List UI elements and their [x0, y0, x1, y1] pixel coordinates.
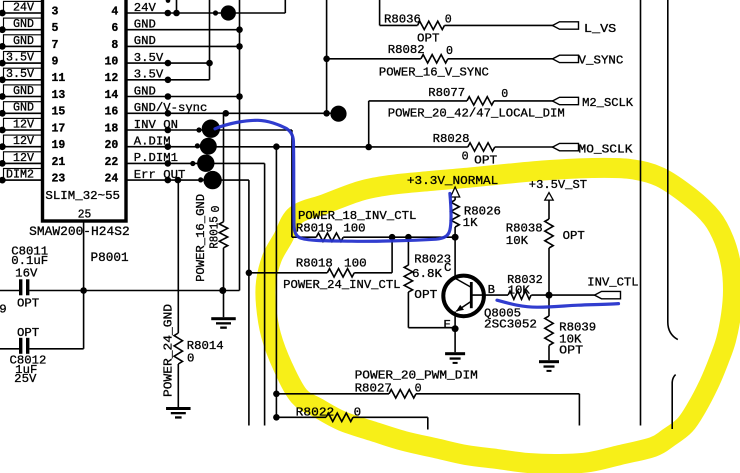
svg-text:12V: 12V	[13, 117, 34, 131]
svg-text:P8001: P8001	[91, 251, 129, 265]
svg-text:5: 5	[52, 22, 59, 35]
svg-text:19: 19	[52, 139, 66, 152]
svg-text:25: 25	[78, 209, 92, 222]
svg-text:R8019: R8019	[296, 222, 333, 236]
svg-text:2SC3052: 2SC3052	[484, 318, 537, 332]
svg-text:POWER_20_42/47_LOCAL_DIM: POWER_20_42/47_LOCAL_DIM	[388, 106, 565, 120]
svg-text:POWER_24_GND: POWER_24_GND	[162, 304, 176, 397]
svg-text:7: 7	[52, 39, 59, 52]
svg-text:24: 24	[105, 173, 119, 186]
svg-text:POWER_24_INV_CTL: POWER_24_INV_CTL	[283, 278, 400, 292]
svg-text:R8028: R8028	[433, 132, 470, 146]
svg-text:0: 0	[462, 150, 469, 164]
svg-text:17: 17	[52, 122, 66, 135]
svg-text:+3.5V_ST: +3.5V_ST	[529, 178, 587, 192]
svg-text:6.8K: 6.8K	[412, 267, 443, 281]
svg-text:OPT: OPT	[563, 229, 585, 243]
svg-text:10K: 10K	[508, 283, 531, 297]
svg-text:24V: 24V	[13, 0, 34, 14]
svg-text:25V: 25V	[14, 372, 37, 386]
svg-text:OPT: OPT	[474, 153, 497, 167]
svg-text:3.5V: 3.5V	[6, 51, 34, 65]
svg-text:3: 3	[52, 5, 59, 18]
svg-text:+3.3V_NORMAL: +3.3V_NORMAL	[407, 174, 498, 188]
svg-text:0: 0	[187, 352, 194, 366]
svg-text:18: 18	[105, 122, 119, 135]
svg-text:GND: GND	[13, 101, 34, 115]
svg-text:E: E	[444, 318, 451, 332]
svg-text:SMAW200-H24S2: SMAW200-H24S2	[29, 224, 130, 239]
svg-text:R8082: R8082	[388, 43, 425, 57]
svg-text:MO_SCLK: MO_SCLK	[579, 142, 634, 156]
svg-text:12V: 12V	[13, 151, 34, 165]
svg-text:20: 20	[105, 139, 119, 152]
svg-text:3.5V: 3.5V	[6, 67, 34, 81]
svg-text:12V: 12V	[13, 134, 34, 148]
svg-text:10: 10	[105, 56, 119, 69]
svg-text:14: 14	[105, 89, 119, 102]
svg-text:POWER_16_V_SYNC: POWER_16_V_SYNC	[379, 66, 489, 80]
svg-text:R8018: R8018	[296, 257, 333, 271]
svg-text:1K: 1K	[463, 216, 478, 230]
svg-text:23: 23	[52, 173, 66, 186]
svg-text:GND: GND	[13, 34, 34, 48]
svg-text:21: 21	[52, 156, 66, 169]
svg-text:22: 22	[105, 156, 119, 169]
svg-text:R8015: R8015	[208, 216, 222, 249]
svg-text:GND: GND	[13, 17, 34, 31]
svg-text:GND: GND	[13, 84, 34, 98]
svg-text:100: 100	[343, 222, 365, 236]
svg-text:POWER_16_GND: POWER_16_GND	[194, 194, 208, 282]
svg-text:16: 16	[105, 106, 119, 119]
svg-text:9: 9	[0, 303, 7, 317]
svg-text:SLIM_32~55: SLIM_32~55	[45, 189, 120, 203]
svg-text:L_VS: L_VS	[584, 22, 616, 36]
svg-text:OPT: OPT	[17, 297, 39, 311]
svg-text:0: 0	[446, 44, 453, 58]
svg-text:0: 0	[209, 206, 223, 213]
svg-text:100: 100	[344, 257, 367, 271]
svg-text:13: 13	[52, 89, 66, 102]
svg-text:12: 12	[105, 72, 119, 85]
svg-text:6: 6	[111, 22, 118, 35]
svg-text:10K: 10K	[506, 234, 529, 248]
svg-text:4: 4	[111, 5, 118, 18]
svg-text:8: 8	[111, 39, 118, 52]
svg-text:0: 0	[445, 13, 452, 27]
svg-text:C: C	[444, 261, 451, 275]
svg-text:M2_SCLK: M2_SCLK	[582, 96, 634, 110]
svg-text:OPT: OPT	[559, 344, 583, 358]
svg-text:R8077: R8077	[428, 86, 465, 100]
svg-text:16V: 16V	[15, 266, 38, 280]
svg-text:INV_CTL: INV_CTL	[587, 276, 638, 290]
svg-text:11: 11	[52, 72, 66, 85]
svg-text:POWER_20_PWM_DIM: POWER_20_PWM_DIM	[355, 369, 478, 383]
svg-text:OPT: OPT	[414, 288, 437, 302]
svg-text:DIM2: DIM2	[6, 168, 34, 182]
svg-text:R8036: R8036	[384, 13, 421, 27]
svg-text:OPT: OPT	[17, 326, 39, 340]
svg-text:15: 15	[52, 106, 66, 119]
svg-text:0: 0	[501, 87, 508, 101]
svg-text:9: 9	[52, 56, 59, 69]
svg-text:V_SYNC: V_SYNC	[579, 54, 624, 68]
